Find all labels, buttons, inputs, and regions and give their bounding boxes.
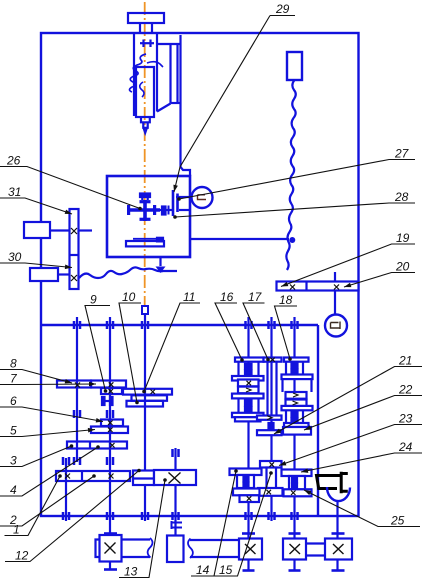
bearing box shaft x337 <box>325 539 352 560</box>
svg-text:13: 13 <box>124 565 138 579</box>
svg-text:19: 19 <box>396 231 410 245</box>
gear block 14 (shaft x248) <box>230 469 262 476</box>
feed gearbox top wall <box>41 324 318 326</box>
arrowheads <box>172 185 178 193</box>
counterweight block <box>287 52 302 80</box>
leader 24 <box>301 453 422 472</box>
svg-text:18: 18 <box>279 293 293 307</box>
spindle sleeve left <box>133 34 135 116</box>
shaft x248 <box>247 317 249 540</box>
gear 6 bar <box>101 420 123 427</box>
leader 1 <box>5 476 61 536</box>
svg-text:29: 29 <box>275 2 290 16</box>
svg-text:6: 6 <box>10 394 17 408</box>
svg-text:21: 21 <box>398 354 412 368</box>
coupling on shaft x175 <box>172 521 183 529</box>
feed screw end cap <box>142 306 148 314</box>
leader 12 <box>5 471 139 562</box>
bevel pinion block <box>162 207 166 215</box>
svg-text:30: 30 <box>8 250 22 264</box>
flange <box>232 413 264 417</box>
top gear bar 18 <box>284 358 309 362</box>
spindle quill <box>136 67 154 117</box>
svg-text:5: 5 <box>10 424 17 438</box>
gear 5 bar <box>91 427 128 434</box>
leader 13 <box>119 480 165 578</box>
leader 5 <box>0 430 95 437</box>
leader 27 <box>179 160 415 200</box>
leader 9 <box>85 306 110 392</box>
leader 28 <box>175 203 415 217</box>
svg-text:12: 12 <box>15 549 29 563</box>
bottom plate <box>235 417 261 421</box>
leader endpoint dots <box>58 185 351 496</box>
leader 6 <box>0 407 103 422</box>
shaft x272 <box>270 317 272 521</box>
clutch marks shafts I,II <box>74 410 113 418</box>
I-block on shaft x272 <box>267 468 277 489</box>
spindle clutch <box>142 40 144 48</box>
line from head box to chain <box>190 238 289 240</box>
worm gear 13 housing <box>154 470 196 485</box>
gear 23 bar <box>260 461 282 468</box>
rack bar (19/20) <box>277 282 359 291</box>
leader 8 <box>0 370 72 384</box>
shaft x175 <box>174 448 176 535</box>
gear 11 sliding bar (top) <box>123 389 172 395</box>
leader 17 <box>243 303 268 360</box>
hub neck lower <box>237 398 239 412</box>
left handwheel upper <box>24 222 50 238</box>
left handwheel lower <box>30 268 58 281</box>
feed gearbox right wall <box>317 325 319 516</box>
table wavy line <box>79 267 177 278</box>
leader 30 <box>0 263 72 268</box>
big X marks <box>169 473 181 484</box>
leader 19 <box>281 244 415 287</box>
spindle centerline (orange dash-dot) <box>144 2 146 306</box>
gear block 24-25 (shaft x294) <box>282 470 312 477</box>
right lead screw bar <box>190 540 239 557</box>
left vertical gear column <box>70 209 79 289</box>
leader 11 <box>144 303 200 392</box>
leader 18 <box>275 306 298 359</box>
gear 8 bar <box>57 381 91 388</box>
bearing box shaft II <box>100 535 122 562</box>
leader 26 <box>0 167 140 209</box>
leader 16 <box>215 303 242 360</box>
break squiggle <box>148 538 153 558</box>
leader 7 <box>0 383 96 386</box>
svg-text:14: 14 <box>196 563 210 577</box>
mid hanging bearings <box>63 449 179 465</box>
damper cylinder <box>167 536 184 563</box>
leader 29 <box>174 16 270 193</box>
shaft x66 <box>65 458 67 521</box>
svg-text:22: 22 <box>398 383 413 397</box>
gear block 12 <box>133 471 154 486</box>
cap neck <box>139 23 141 33</box>
leader 10 <box>119 303 141 403</box>
gear 7 bar <box>91 381 126 388</box>
screw nut on spindle <box>140 194 150 198</box>
svg-text:10: 10 <box>122 290 136 304</box>
leader 20 <box>344 273 415 288</box>
head bracket <box>157 43 181 45</box>
drill chuck <box>141 118 150 133</box>
shaft x294 <box>293 317 295 540</box>
svg-text:31: 31 <box>8 185 21 199</box>
bearing box shaft x294 <box>283 539 306 560</box>
clutch plates <box>172 190 175 216</box>
leader 14 <box>191 471 236 576</box>
svg-text:20: 20 <box>395 260 410 274</box>
dog clutch on shaft II <box>102 397 105 405</box>
gear 17 sleeve on shaft x272 <box>257 358 282 436</box>
bevel gear pair (cross) <box>143 200 147 221</box>
svg-text:11: 11 <box>183 290 195 304</box>
flange <box>232 394 264 399</box>
leader 21 <box>274 367 422 435</box>
spindle sleeve right <box>156 34 158 112</box>
cam follower arc <box>327 487 350 501</box>
hub neck upper <box>237 362 239 376</box>
motor shaft down (x335) <box>334 272 336 282</box>
svg-text:24: 24 <box>398 440 413 454</box>
leader 31 <box>0 198 72 214</box>
leader 15 <box>215 473 272 576</box>
svg-text:28: 28 <box>394 190 409 204</box>
svg-text:17: 17 <box>248 290 263 304</box>
gear cone on shaft x294 <box>282 358 313 435</box>
leader 2 <box>0 476 94 526</box>
dial indicator circle <box>192 187 213 208</box>
leader 23 <box>279 425 422 466</box>
work table <box>126 241 164 246</box>
shaft x337 lower <box>336 502 338 540</box>
gears 3-4 bar <box>67 442 127 449</box>
svg-text:8: 8 <box>10 357 17 371</box>
shaft II (x110) <box>109 317 111 533</box>
svg-text:23: 23 <box>398 412 413 426</box>
gear 9 bar <box>101 388 122 394</box>
shaft I (x77) <box>76 317 78 462</box>
head right edge <box>181 35 191 176</box>
svg-text:1: 1 <box>13 523 20 537</box>
dial shaft line <box>176 196 192 198</box>
top wall bearings <box>74 321 298 329</box>
leader 25 <box>304 490 420 527</box>
sliding gears <box>238 380 259 387</box>
top gear bar 16 <box>235 358 264 362</box>
spindle-head gearbox housing <box>107 176 190 257</box>
spindle return spring squiggle <box>130 54 147 92</box>
leader 3 <box>0 446 72 467</box>
gear 10 sliding bar (bottom) <box>127 401 164 407</box>
svg-text:3: 3 <box>10 454 17 468</box>
left lead screw bar <box>96 540 151 558</box>
svg-text:4: 4 <box>10 483 17 497</box>
svg-text:27: 27 <box>394 147 410 161</box>
table anchor <box>159 257 161 266</box>
svg-text:26: 26 <box>6 154 21 168</box>
motor circle <box>325 315 347 337</box>
gears 1-2 bar <box>56 471 130 481</box>
flange <box>232 376 264 381</box>
svg-text:25: 25 <box>390 514 405 528</box>
counterweight chain (squiggle) <box>286 80 295 270</box>
gear 22 bar <box>283 427 311 435</box>
leader 22 <box>304 396 422 431</box>
machine column frame <box>41 33 359 516</box>
cam symbol (black) <box>317 472 348 494</box>
leader 4 <box>0 447 98 496</box>
spindle shaft (x145) <box>144 314 146 471</box>
sliding block middle bar <box>132 395 168 401</box>
leader endpoint dots <box>138 207 142 211</box>
handwheel shafts <box>50 229 70 231</box>
top cap (handwheel on spindle top) <box>128 13 164 23</box>
svg-text:16: 16 <box>220 290 234 304</box>
svg-text:15: 15 <box>219 563 233 577</box>
bar between boxes <box>306 542 325 544</box>
bottom wall bearings <box>63 512 298 520</box>
svg-text:9: 9 <box>90 293 97 307</box>
bearing box shaft x248 <box>239 539 262 560</box>
